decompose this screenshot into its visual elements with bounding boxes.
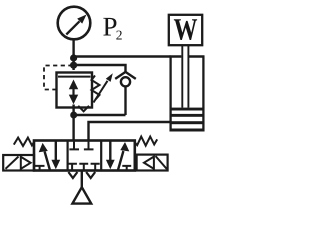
svg-text:2: 2 xyxy=(116,28,123,43)
right spring xyxy=(135,137,157,146)
node (junction dot at branch bottom) xyxy=(70,112,77,119)
wire: port B pipe to cylinder bottom xyxy=(89,122,171,141)
wire B: branch to check valve xyxy=(74,65,126,72)
cylinder barrel left wall xyxy=(169,56,171,132)
reducing valve flow arrow (double headed) xyxy=(72,88,74,97)
wire: tank line xyxy=(81,171,83,189)
left square: down arrow xyxy=(55,141,57,160)
right solenoid box xyxy=(137,155,168,171)
center square: blocked ports (bottom) xyxy=(67,164,77,171)
label P2 xyxy=(103,12,123,43)
wire: main line down to directional valve port A xyxy=(72,105,74,142)
tank flow arrowheads xyxy=(68,172,77,178)
left solenoid box xyxy=(3,155,34,171)
check valve V1 (seat) xyxy=(115,72,136,79)
node (junction dot lower) xyxy=(70,62,77,69)
flow direction arrowhead below reducing valve xyxy=(78,106,89,112)
cylinder top edges xyxy=(170,55,205,57)
right square: down arrow xyxy=(109,141,111,160)
left square: up arrow xyxy=(45,152,50,171)
tank triangle xyxy=(72,187,91,203)
directional valve body (3 position) xyxy=(34,141,135,171)
left spring xyxy=(14,138,34,146)
piston (double line) xyxy=(170,108,205,111)
wire: branch bottom return xyxy=(74,114,126,116)
weight W box xyxy=(169,15,202,45)
right square: blocked port T xyxy=(122,166,131,171)
svg-text:W: W xyxy=(174,12,198,47)
gauge stem wire xyxy=(72,39,74,70)
reducing valve spring xyxy=(92,76,100,100)
right square: up arrow xyxy=(118,151,123,170)
center square: blocked ports (top) xyxy=(69,141,79,150)
wire A: gauge line to cylinder top xyxy=(74,55,171,57)
pilot line (dashed) xyxy=(44,66,71,90)
wire: check valve outlet xyxy=(124,86,126,115)
gauge needle xyxy=(66,21,79,34)
pressure reducing valve body xyxy=(57,73,93,108)
adjustability arrow xyxy=(94,81,108,103)
cylinder barrel right wall xyxy=(202,56,204,132)
pressure gauge xyxy=(58,7,91,40)
node (junction dot upper) xyxy=(70,54,77,61)
piston rod (double line) xyxy=(182,46,188,108)
check valve ball xyxy=(121,77,130,86)
left square: blocked port T xyxy=(35,166,45,171)
cylinder bottom (double line) xyxy=(170,121,205,124)
